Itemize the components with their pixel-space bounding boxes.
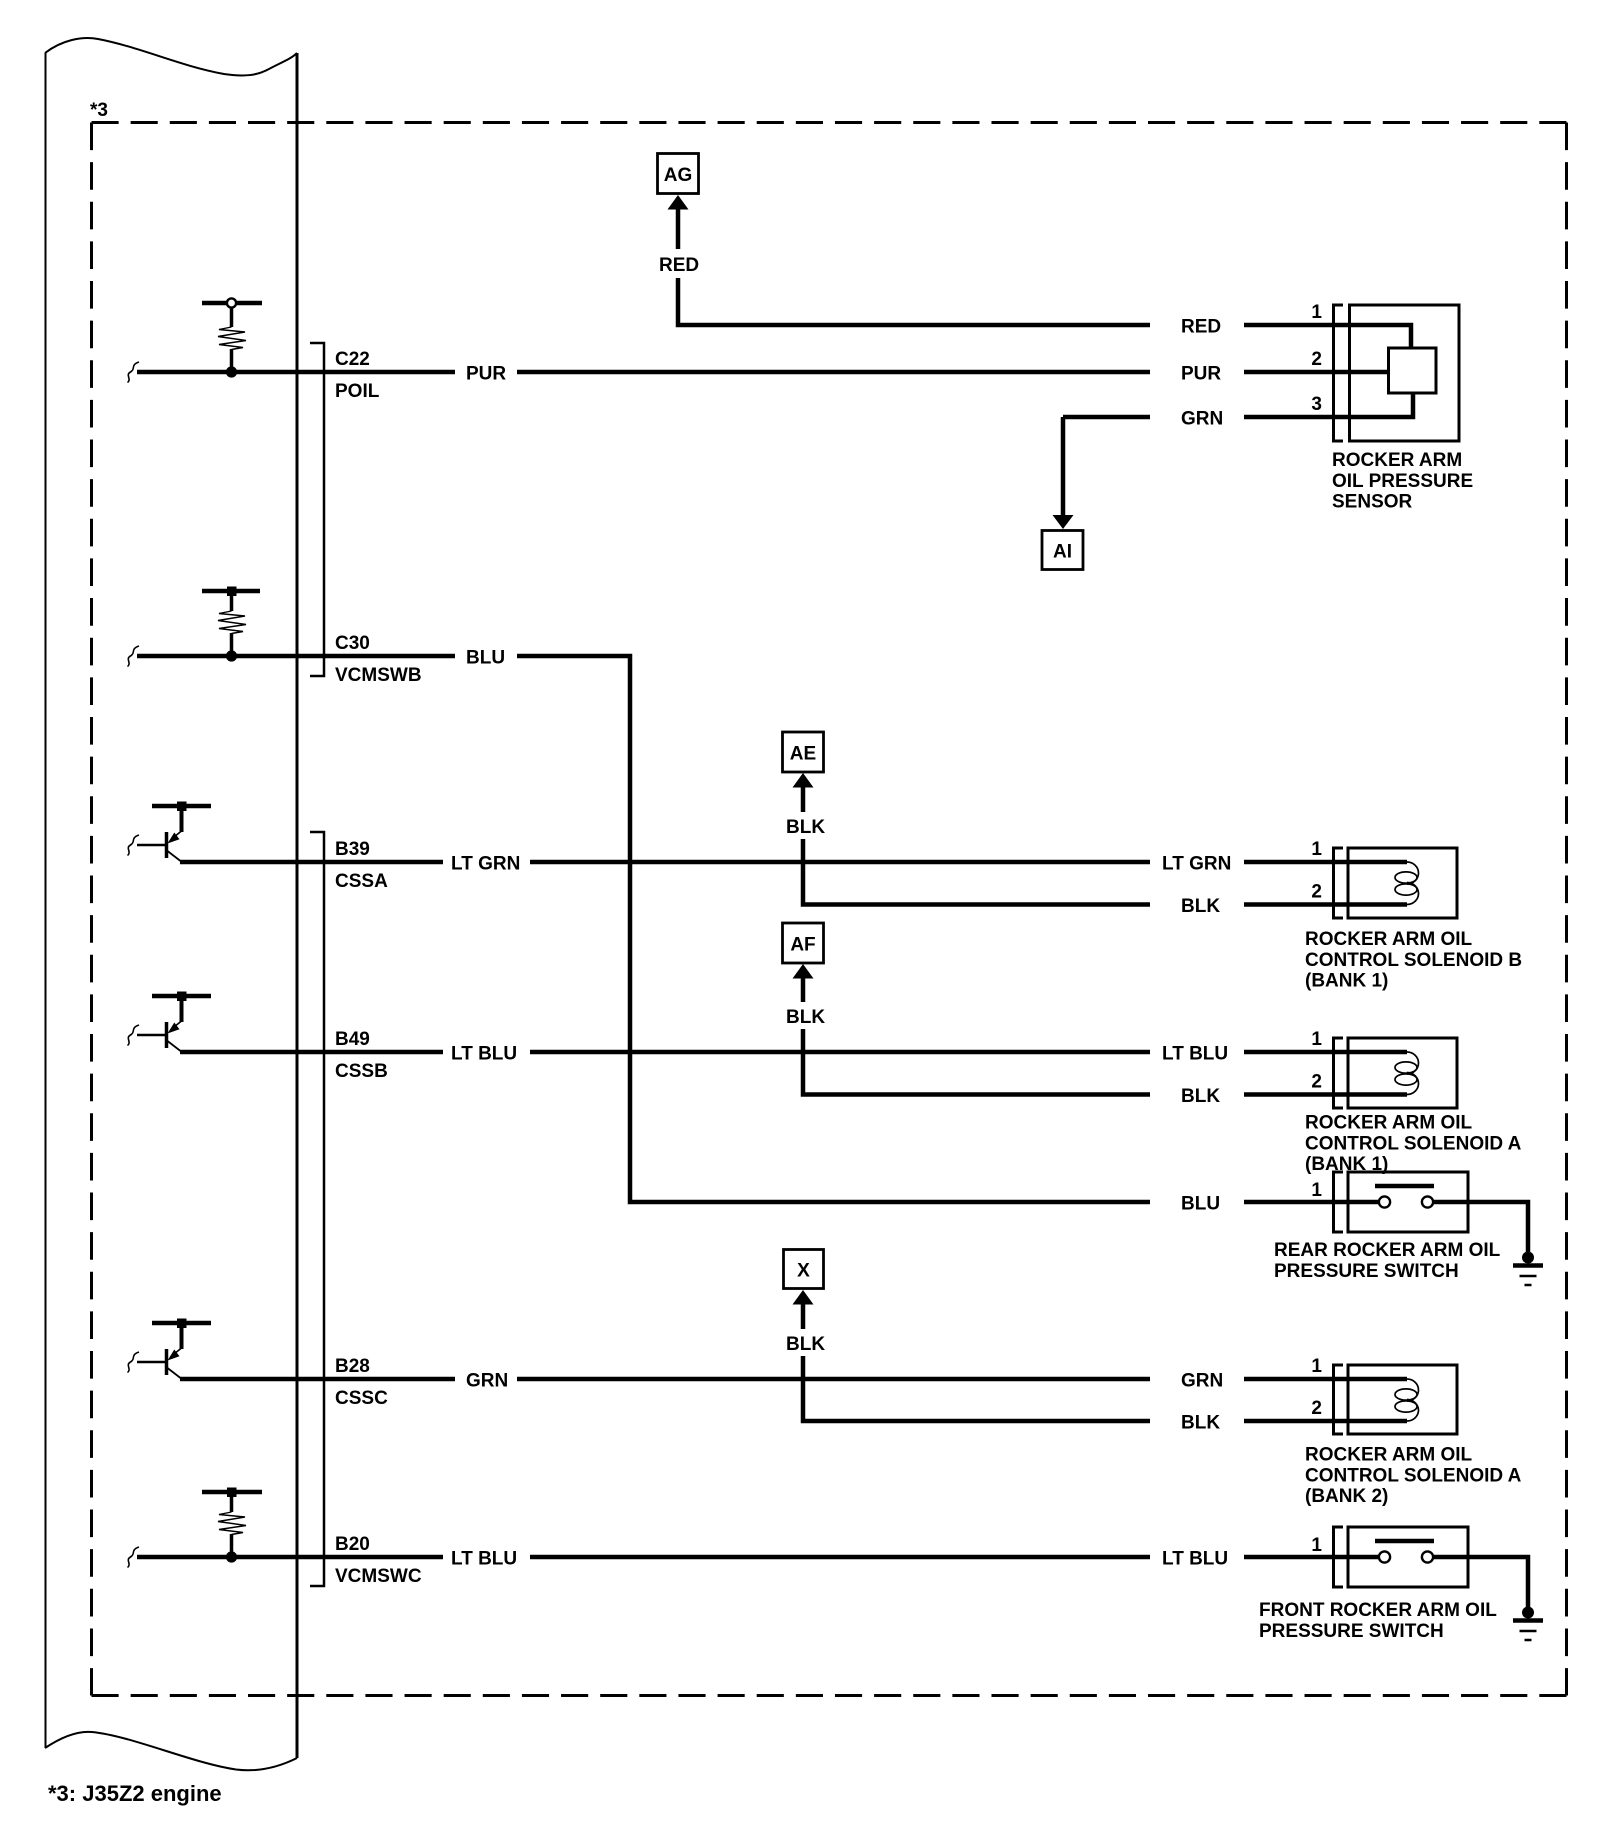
wire LT GRN from B39 to solenoid B pin 1: [180, 860, 1407, 865]
junction dot C30: [226, 650, 237, 661]
rocker arm oil control solenoid B body: [1348, 848, 1457, 918]
junction dot B20: [226, 1551, 237, 1562]
svg-text:BLK: BLK: [786, 1334, 825, 1355]
PCM strip right edge: [296, 53, 299, 1758]
svg-text:2: 2: [1311, 1398, 1322, 1419]
svg-text:RED: RED: [1181, 317, 1221, 338]
svg-text:CSSA: CSSA: [335, 871, 388, 892]
rocker arm oil control solenoid A bank1 body: [1348, 1038, 1457, 1108]
wire BLK from AF elbow to solenoid A bank1 pin 2: [803, 978, 1407, 1095]
svg-text:3: 3: [1311, 394, 1322, 415]
wire rear switch to ground: [1433, 1202, 1528, 1253]
svg-text:B49: B49: [335, 1029, 370, 1050]
wire label BLK (solenoid A bank1 pin 2): [1150, 1081, 1244, 1109]
off-page connector AI box: [1042, 531, 1083, 570]
svg-text:GRN: GRN: [466, 1371, 508, 1392]
ground symbol (front switch): [1513, 1607, 1543, 1641]
wire PUR from C22 to sensor pin 2: [137, 370, 1388, 375]
svg-text:GRN: GRN: [1181, 1371, 1223, 1392]
wire label LT BLU (solenoid A bank1 pin 1): [1150, 1038, 1244, 1066]
wire label BLK (AF vertical leg): [784, 1002, 825, 1029]
rear switch connector bracket: [1334, 1172, 1344, 1232]
arrowhead up into AE: [793, 773, 814, 788]
svg-text:VCMSWC: VCMSWC: [335, 1566, 422, 1587]
rear switch contact terminals: [1379, 1196, 1433, 1207]
connector bracket B39/B49/B28/B20: [310, 832, 324, 1586]
wire break squiggle at B28 base: [128, 1352, 140, 1373]
svg-text:BLU: BLU: [1181, 1194, 1220, 1215]
resistor pull-up at C30: [202, 587, 260, 657]
wire BLK from X elbow to solenoid A bank2 pin 2: [803, 1304, 1407, 1421]
wire RED from AG elbow to sensor pin 1: [678, 209, 1411, 348]
svg-text:1: 1: [1311, 302, 1322, 323]
off-page connector AF box: [783, 923, 824, 963]
solenoid B coil: [1395, 862, 1419, 905]
svg-text:PUR: PUR: [1181, 364, 1221, 385]
wire label RED (vertical AG leg): [656, 249, 701, 278]
wire label LT GRN (solenoid B pin 1): [1150, 848, 1244, 876]
wire label GRN (solenoid A bank2 pin 1): [1150, 1365, 1244, 1393]
svg-text:2: 2: [1311, 882, 1322, 903]
wire LT BLU from B49 to solenoid A bank1 pin 1: [180, 1050, 1407, 1055]
svg-text:VCMSWB: VCMSWB: [335, 665, 422, 686]
wire label PUR (left): [455, 358, 517, 386]
svg-text:BLK: BLK: [1181, 896, 1220, 917]
rocker arm oil control solenoid A bank2 body: [1348, 1365, 1457, 1434]
wire break squiggle at B39 base: [128, 835, 140, 856]
dashed J35Z2 engine border: [92, 123, 1567, 1696]
wire GRN from B28 to solenoid A bank2 pin 1: [180, 1377, 1407, 1382]
wire GRN from AI elbow to sensor pin 3: [1063, 393, 1413, 417]
svg-text:PUR: PUR: [466, 364, 506, 385]
svg-text:1: 1: [1311, 1356, 1322, 1377]
svg-text:LT BLU: LT BLU: [451, 1549, 517, 1570]
wire LT BLU from B20 to front pressure switch pin 1: [137, 1555, 1379, 1560]
wire label BLU (left): [455, 642, 517, 670]
off-page connector AG box: [658, 154, 699, 194]
svg-text:1: 1: [1311, 1535, 1322, 1556]
transistor driver at B28: [137, 1319, 211, 1379]
PCM strip left edge: [45, 53, 47, 1748]
svg-text:1: 1: [1311, 1029, 1322, 1050]
solenoid A bank2 coil: [1395, 1379, 1419, 1421]
arrowhead down into AI: [1053, 515, 1074, 529]
wire label RED (sensor pin 1): [1150, 311, 1244, 339]
PCM strip torn top edge: [45, 38, 297, 75]
svg-text:LT GRN: LT GRN: [1162, 854, 1231, 875]
solenoid A bank1 connector bracket: [1334, 1038, 1344, 1108]
wire break squiggle at B20: [128, 1547, 140, 1568]
sensor inner element: [1389, 348, 1437, 393]
svg-text:AI: AI: [1053, 542, 1072, 563]
arrowhead up into AF: [793, 964, 814, 979]
connector bracket C22/C30: [310, 343, 324, 676]
svg-text:B39: B39: [335, 839, 370, 860]
svg-text:BLK: BLK: [1181, 1086, 1220, 1107]
arrowhead up into AG: [668, 195, 689, 210]
svg-text:GRN: GRN: [1181, 409, 1223, 430]
transistor driver at B49: [137, 992, 211, 1052]
svg-text:C30: C30: [335, 633, 370, 654]
wire label BLK (AE vertical leg): [784, 812, 825, 839]
svg-text:B20: B20: [335, 1534, 370, 1555]
svg-text:1: 1: [1311, 1180, 1322, 1201]
solenoid A bank1 coil: [1395, 1052, 1419, 1095]
svg-text:B28: B28: [335, 1356, 370, 1377]
wire label LT BLU (front switch pin 1): [1150, 1543, 1244, 1571]
rocker arm oil pressure sensor body: [1350, 305, 1460, 441]
wire break squiggle at B49 base: [128, 1025, 140, 1046]
resistor pull-up at B20: [202, 1488, 262, 1558]
wire break squiggle at C22: [128, 362, 140, 383]
svg-text:AF: AF: [790, 935, 815, 956]
wire AI vertical leg: [1061, 417, 1066, 515]
svg-text:LT GRN: LT GRN: [451, 854, 520, 875]
svg-text:2: 2: [1311, 349, 1322, 370]
wire label BLK (X vertical leg): [784, 1329, 825, 1356]
front switch contact bar: [1375, 1539, 1434, 1544]
svg-text:BLK: BLK: [786, 1007, 825, 1028]
wire label LT GRN (left): [443, 848, 530, 876]
front switch contact terminals: [1379, 1551, 1433, 1562]
svg-text:BLK: BLK: [786, 817, 825, 838]
rear switch contact bar: [1375, 1184, 1434, 1189]
wire label BLU (rear switch pin 1): [1150, 1188, 1244, 1216]
svg-text:1: 1: [1311, 839, 1322, 860]
junction dot C22: [226, 366, 237, 377]
arrowhead up into X: [793, 1290, 814, 1305]
svg-text:LT BLU: LT BLU: [1162, 1044, 1228, 1065]
svg-text:POIL: POIL: [335, 381, 380, 402]
rear rocker arm oil pressure switch body: [1348, 1172, 1468, 1232]
off-page connector AE box: [783, 732, 824, 772]
svg-text:AE: AE: [790, 744, 816, 765]
svg-text:AG: AG: [664, 165, 693, 186]
wire label LT BLU (left): [443, 1038, 530, 1066]
wire label PUR (sensor pin 2): [1150, 358, 1244, 386]
svg-text:BLK: BLK: [1181, 1413, 1220, 1434]
svg-text:LT BLU: LT BLU: [451, 1044, 517, 1065]
wire BLK from AE elbow to solenoid B pin 2: [803, 787, 1407, 905]
front switch connector bracket: [1334, 1527, 1344, 1587]
svg-text:C22: C22: [335, 349, 370, 370]
svg-text:RED: RED: [659, 255, 699, 276]
svg-text:CSSB: CSSB: [335, 1061, 388, 1082]
wire label LT BLU (left B20): [443, 1543, 530, 1571]
svg-text:X: X: [797, 1261, 810, 1282]
wire label BLK (solenoid B pin 2): [1150, 891, 1244, 919]
ground symbol (rear switch): [1513, 1252, 1543, 1286]
solenoid B connector bracket: [1334, 848, 1344, 918]
wire break squiggle at C30: [128, 646, 140, 667]
solenoid A bank2 connector bracket: [1334, 1365, 1344, 1434]
off-page connector X box: [784, 1250, 824, 1289]
resistor pull-up at C22: [202, 298, 262, 372]
svg-text:LT BLU: LT BLU: [1162, 1549, 1228, 1570]
front rocker arm oil pressure switch body: [1348, 1527, 1468, 1587]
wire label BLK (solenoid A bank2 pin 2): [1150, 1407, 1244, 1435]
svg-text:*3: *3: [90, 100, 108, 121]
svg-text:CSSC: CSSC: [335, 1388, 388, 1409]
wire label GRN (sensor pin 3): [1150, 403, 1244, 431]
wire BLU from C30 to rear pressure switch pin 1: [137, 656, 1379, 1202]
PCM strip torn bottom edge: [45, 1732, 297, 1770]
sensor connector bracket: [1334, 305, 1344, 441]
svg-text:2: 2: [1311, 1072, 1322, 1093]
wire front switch to ground: [1433, 1557, 1528, 1608]
svg-text:*3: J35Z2 engine: *3: J35Z2 engine: [48, 1781, 222, 1806]
transistor driver at B39: [137, 802, 211, 862]
svg-text:BLU: BLU: [466, 648, 505, 669]
wire label GRN (left): [455, 1365, 517, 1393]
